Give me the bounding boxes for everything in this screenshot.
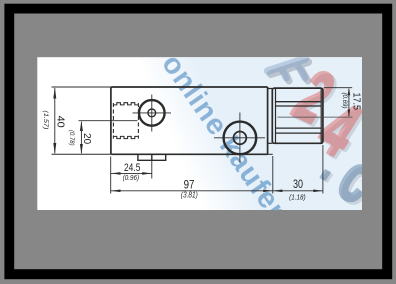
- svg-text:30: 30: [293, 178, 303, 191]
- bottom notch: [138, 154, 166, 160]
- extension line bottom left (40 dim): [52, 153, 112, 155]
- circle 2 crosshair: [214, 137, 265, 139]
- svg-text:(3.81): (3.81): [181, 190, 198, 199]
- 30 arrows: [273, 190, 283, 193]
- svg-text:20: 20: [81, 133, 93, 144]
- extension bottom right to 272.8: [268, 153, 273, 155]
- hidden thread bore top castellated: [113, 103, 138, 105]
- main body left edge: [110, 87, 112, 154]
- main body top edge: [111, 86, 267, 88]
- svg-text:(1.18): (1.18): [289, 193, 306, 202]
- svg-text:(0.69): (0.69): [341, 93, 348, 109]
- main body right edge: [267, 87, 269, 154]
- 20 arrows: [80, 121, 83, 131]
- coil left inner line: [275, 88, 277, 143]
- circle 1 outer: [139, 100, 165, 126]
- circle 2 outer: [224, 122, 257, 155]
- coil cylinder outline: [272, 88, 323, 143]
- coil groove lines: [276, 101, 322, 103]
- circle 1 inner: [148, 109, 156, 117]
- svg-text:(0.78): (0.78): [68, 130, 75, 146]
- 24.5 dim line: [111, 172, 152, 174]
- 30 dim line: [273, 190, 323, 192]
- svg-text:(0.96): (0.96): [123, 173, 140, 182]
- 17.5 arrows: [348, 88, 351, 96]
- dimension 20 line: [80, 122, 82, 154]
- svg-text:17.5: 17.5: [350, 93, 362, 111]
- 97 / 30 extension lines: [272, 156, 274, 194]
- 24.5 extension lines: [110, 157, 112, 194]
- hidden bore right edge: [137, 103, 139, 139]
- hidden thread bore bottom castellated: [113, 136, 138, 138]
- circle 1 crosshair: [133, 112, 172, 114]
- 24.5 arrows: [111, 172, 121, 175]
- main body bottom edge: [111, 153, 267, 155]
- dimension 40 line: [54, 88, 56, 153]
- 17.5 extension top: [324, 87, 352, 89]
- svg-text:(1.57): (1.57): [42, 110, 49, 129]
- watermark light blue diagonal band: [133, 40, 380, 228]
- 97 dim line: [111, 190, 273, 192]
- neck bottom: [268, 142, 273, 144]
- 40 arrows: [53, 87, 56, 98]
- white drawing sheet: [37, 57, 362, 210]
- 17.5 dim line: [348, 89, 350, 116]
- dimension texts: [42, 93, 362, 202]
- 97 arrows: [111, 190, 121, 193]
- dimension 20 extension: [79, 120, 138, 122]
- neck top: [268, 88, 273, 90]
- coil centerline: [278, 116, 353, 118]
- coil right inner line: [320, 88, 322, 143]
- hidden bore left edge: [112, 103, 114, 139]
- svg-text:40: 40: [55, 116, 67, 128]
- watermark big logo k24.c: [268, 54, 388, 221]
- watermark logo letter k (arrow-like fragment, clipped at sheet top): [271, 62, 308, 81]
- circle 2 inner: [234, 132, 247, 145]
- extension line top (40 dim): [52, 86, 112, 88]
- arrows: [53, 87, 350, 192]
